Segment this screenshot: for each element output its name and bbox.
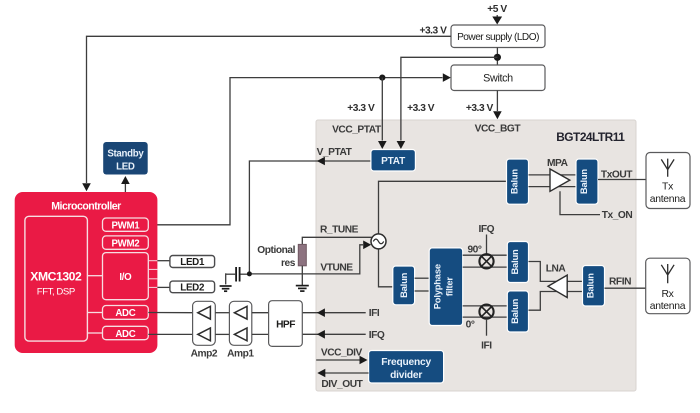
block PTAT <box>371 150 416 172</box>
wire DIV_OUT from frequency divider <box>317 369 368 378</box>
svg-text:divider: divider <box>390 370 422 381</box>
wire TxOUT to Tx antenna <box>598 179 646 181</box>
svg-text:MPA: MPA <box>547 158 569 169</box>
svg-text:Power supply (LDO): Power supply (LDO) <box>457 32 539 43</box>
wire V_PTAT from PTAT to VTUNE junction <box>249 157 371 274</box>
svg-text:PTAT: PTAT <box>381 156 405 167</box>
capacitor C1 (VTUNE decoupling) <box>226 267 250 282</box>
svg-text:+3.3 V: +3.3 V <box>419 26 447 37</box>
block standby LED <box>103 142 148 175</box>
wire R_TUNE resistor to VCO <box>302 237 372 244</box>
svg-text:+3.3 V: +3.3 V <box>407 103 435 114</box>
wire IFI stub from mixer M2 <box>486 319 488 336</box>
svg-text:Rx: Rx <box>661 289 674 300</box>
svg-text:Balun: Balun <box>398 272 409 298</box>
svg-text:res: res <box>281 258 296 269</box>
svg-text:I/O: I/O <box>119 272 132 283</box>
wire I/O pin stubs <box>148 261 157 288</box>
wire IFQ stub to mixer M1 <box>486 235 488 255</box>
svg-text:Tx: Tx <box>662 182 674 193</box>
svg-text:LED: LED <box>116 161 135 172</box>
svg-text:Amp1: Amp1 <box>227 349 254 360</box>
wire capacitor to ground <box>225 273 227 284</box>
svg-text:LED1: LED1 <box>180 257 205 268</box>
svg-text:Frequency: Frequency <box>381 357 431 368</box>
wire LNA to balun B4 (pair) <box>565 281 583 291</box>
wire VCC_DIV to frequency divider <box>316 356 367 365</box>
svg-text:VCC_BGT: VCC_BGT <box>475 124 522 135</box>
svg-text:+5 V: +5 V <box>487 4 507 15</box>
svg-text:ADC: ADC <box>115 308 135 319</box>
balun B4 (RFIN) <box>583 266 605 307</box>
resistor optional res <box>257 244 306 268</box>
wire switch to VCC_BGT <box>493 91 502 120</box>
wire VCO to TX balun <box>379 181 508 234</box>
svg-text:+3.3 V: +3.3 V <box>347 103 375 114</box>
wire Amp2 to Amp1 row2 <box>215 333 229 335</box>
svg-text:+3.3 V: +3.3 V <box>466 103 494 114</box>
LED LED2 <box>170 281 215 293</box>
wire LDO to switch <box>496 48 498 66</box>
svg-text:DIV_OUT: DIV_OUT <box>321 379 363 390</box>
svg-text:antenna: antenna <box>650 194 686 205</box>
power supply LDO box <box>451 25 545 48</box>
switch box <box>451 65 545 91</box>
filter HPF <box>269 301 303 347</box>
wire junction to PTAT second supply <box>378 78 387 149</box>
wire +5V to power supply <box>492 15 502 25</box>
svg-text:RFIN: RFIN <box>609 276 631 287</box>
wire balun B3 to LNA <box>529 292 558 311</box>
amplifier MPA <box>547 158 570 191</box>
wire IFQ output to HPF <box>303 330 366 339</box>
block PWM1 <box>103 218 149 231</box>
junction on switch wire <box>379 75 385 81</box>
svg-text:filter: filter <box>444 277 455 297</box>
mixer M2 <box>479 305 493 319</box>
svg-text:Optional: Optional <box>257 245 295 256</box>
wire microcontroller to standby LED <box>121 176 130 192</box>
svg-text:XMC1302: XMC1302 <box>30 270 82 284</box>
wire IFI output to HPF <box>303 308 366 317</box>
ground (resistor) <box>296 286 309 292</box>
block ADC2 <box>103 326 149 340</box>
svg-text:Microcontroller: Microcontroller <box>51 200 121 212</box>
svg-text:LED2: LED2 <box>180 283 205 294</box>
svg-text:TxOUT: TxOUT <box>601 169 633 180</box>
svg-text:Balun: Balun <box>509 169 520 195</box>
wire polyphase to mixer M2 (pair) <box>463 306 508 317</box>
svg-text:90°: 90° <box>467 244 481 255</box>
svg-text:Balun: Balun <box>509 298 520 324</box>
svg-text:IFQ: IFQ <box>369 330 385 341</box>
ground (capacitor) <box>220 286 232 291</box>
svg-text:IFI: IFI <box>481 341 492 352</box>
block PWM2 <box>103 236 149 249</box>
wire Tx_ON <box>560 191 600 214</box>
svg-text:VCC_PTAT: VCC_PTAT <box>332 124 382 135</box>
wire balun B1 to polyphase (pair) <box>415 278 430 291</box>
wire balun B2 to LNA <box>529 262 558 282</box>
wire resistor to ground <box>301 266 303 285</box>
block ADC1 <box>103 306 149 320</box>
svg-text:HPF: HPF <box>276 319 295 330</box>
balun B6 (TXOUT) <box>576 159 598 204</box>
wire balun B5 to MPA (pair) <box>529 175 577 187</box>
wire Amp2 to Amp1 row1 <box>215 312 229 314</box>
svg-text:Balun: Balun <box>509 249 520 275</box>
balun B1 (LO path) <box>393 266 415 305</box>
block polyphase filter <box>429 248 463 326</box>
wire I/O to LED2 <box>157 286 170 288</box>
svg-text:LNA: LNA <box>546 264 567 275</box>
svg-text:IFI: IFI <box>369 308 380 319</box>
svg-text:BGT24LTR11: BGT24LTR11 <box>556 130 625 144</box>
svg-text:Amp2: Amp2 <box>191 349 218 360</box>
wire polyphase to mixer M1 (pair) <box>463 255 508 267</box>
mixer M1 <box>479 254 493 268</box>
antenna ANT2 Rx <box>646 258 690 314</box>
block frequency divider <box>369 351 444 384</box>
wire XMC1302 to ADC2 <box>87 332 102 334</box>
block XMC1302 <box>25 216 88 341</box>
svg-text:PWM1: PWM1 <box>111 220 140 231</box>
wire XMC1302 to I/O <box>87 275 102 277</box>
svg-text:Standby: Standby <box>107 148 144 159</box>
wire LDO to microcontroller <box>82 36 451 191</box>
block microcontroller body <box>15 192 158 353</box>
junction LDO output <box>494 54 501 61</box>
svg-text:IFQ: IFQ <box>478 224 494 235</box>
svg-text:antenna: antenna <box>650 301 686 312</box>
wire Amp1 to HPF row1 <box>252 312 269 314</box>
wire I/O to LED1 <box>157 260 170 262</box>
svg-text:Tx_ON: Tx_ON <box>602 210 633 221</box>
wire VTUNE to VCO <box>249 241 371 274</box>
svg-text:Switch: Switch <box>483 73 513 85</box>
amplifier LNA <box>546 264 567 298</box>
svg-text:Balun: Balun <box>585 273 596 299</box>
amplifier Amp2 <box>191 301 218 359</box>
svg-text:PWM2: PWM2 <box>111 238 139 249</box>
balun B2 (RX I) <box>507 242 528 283</box>
svg-text:ADC: ADC <box>115 329 135 340</box>
wire PWM1 to switch <box>148 73 451 225</box>
svg-text:R_TUNE: R_TUNE <box>320 225 359 236</box>
oscillator VCO <box>371 234 386 249</box>
wire RFIN to Rx antenna <box>605 287 647 289</box>
wire XMC1302 to ADC1 <box>87 312 102 314</box>
junction VTUNE node <box>247 271 252 276</box>
svg-text:0°: 0° <box>466 320 475 331</box>
balun B3 (RX Q) <box>507 291 528 332</box>
svg-text:FFT, DSP: FFT, DSP <box>37 286 75 297</box>
svg-text:Polyphase: Polyphase <box>432 264 443 309</box>
chip BGT24LTR11 body <box>316 120 636 391</box>
svg-text:Balun: Balun <box>578 169 589 195</box>
balun B5 (TX drive) <box>507 159 529 204</box>
wire VCO to LO balun <box>379 249 393 287</box>
svg-text:VTUNE: VTUNE <box>320 263 353 274</box>
svg-text:VCC_DIV: VCC_DIV <box>321 347 363 358</box>
wire ADC1 to Amp2 <box>148 312 192 314</box>
antenna ANT1 Tx <box>646 153 690 209</box>
LED LED1 <box>170 256 215 269</box>
svg-text:V_PTAT: V_PTAT <box>317 147 353 158</box>
wire ADC2 to Amp2 <box>148 333 192 335</box>
amplifier Amp1 <box>227 301 254 359</box>
wire Amp1 to HPF row2 <box>252 333 269 335</box>
wire LDO junction to PTAT (VCC_PTAT supply) <box>397 57 498 149</box>
block I/O <box>103 253 149 300</box>
